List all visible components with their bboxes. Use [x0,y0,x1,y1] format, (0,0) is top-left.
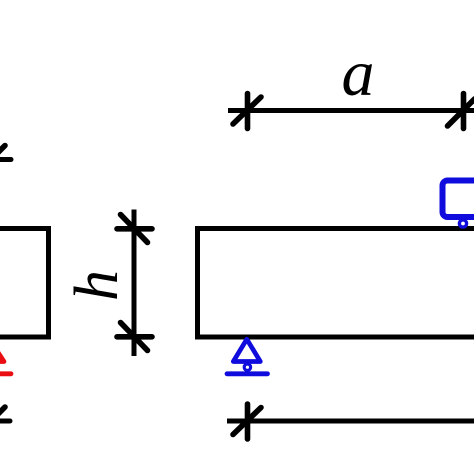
tick top of h dimension [117,215,152,243]
roller circle of blue support [244,364,250,370]
svg-text:a: a [342,37,375,110]
tick left of a dimension [233,94,261,129]
wire: bottom dimension line [227,419,474,424]
triangle of blue support [233,339,260,361]
triangle of red support [0,341,4,362]
wire: cut-off dimension line fragment bottom-left [0,407,10,435]
tick bottom of h dimension [117,323,152,351]
wire: h dimension line [132,210,137,357]
base line of red support [0,371,11,376]
blue loading block top right (cut off at right edge) [443,181,474,228]
beam rectangle (extends past right edge) [198,229,474,338]
red support (cut off at left edge) [0,341,11,374]
wire: cut-off dimension line fragment top-left [0,146,11,174]
blue roller support under beam [227,339,268,374]
roller circle of loading block [459,220,466,227]
tick on bottom dimension [233,404,261,439]
svg-text:h: h [63,270,131,301]
dimension line a (horizontal, top right) [228,94,474,129]
bottom dimension line (cut off at right edge) [227,404,474,439]
wire: a dimension line [228,108,474,113]
tick right of a dimension [448,94,474,129]
dimension line h (vertical) [117,210,152,357]
base line of blue support [227,371,268,376]
frame of loading block [443,181,474,218]
left specimen rectangle (cut off at left edge) [0,229,49,338]
